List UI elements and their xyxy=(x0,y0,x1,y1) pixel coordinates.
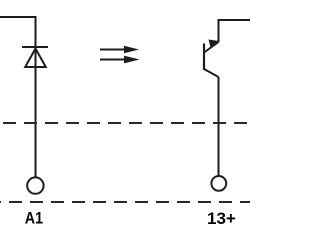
coupling arrow xyxy=(100,56,140,64)
wire xyxy=(35,16,37,177)
diode xyxy=(22,47,48,67)
transistor xyxy=(204,40,219,78)
svg-text:A1: A1 xyxy=(25,210,43,228)
dashed boundary line xyxy=(0,201,250,203)
wire xyxy=(0,16,35,18)
terminal 13+ xyxy=(211,176,226,191)
wire xyxy=(218,19,251,21)
terminal A1 xyxy=(27,177,43,193)
coupling arrow xyxy=(100,46,139,54)
dashed boundary line xyxy=(0,122,250,124)
svg-text:13+: 13+ xyxy=(207,209,236,228)
wire xyxy=(218,77,220,176)
wire xyxy=(218,20,220,42)
